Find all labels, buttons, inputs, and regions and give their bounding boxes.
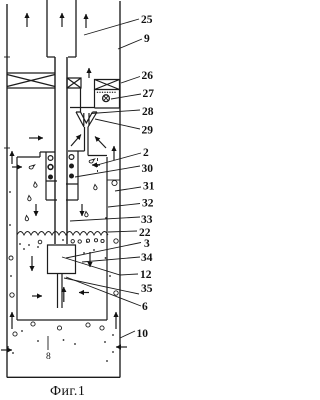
droplet b — [34, 182, 37, 187]
leader 8 — [47, 336, 49, 350]
svg-text:26: 26 — [142, 70, 154, 82]
anchor box right — [66, 184, 78, 200]
inflow arrow upper left — [29, 137, 43, 139]
bubbles under level — [71, 240, 74, 243]
bypass channel wall — [80, 88, 82, 112]
down arrow below level right — [89, 252, 91, 267]
leader 29 — [95, 119, 140, 129]
liquid level wavy line — [17, 232, 108, 236]
flow arrow annulus left bottom — [11, 312, 13, 329]
leader 32 — [108, 204, 140, 208]
flow arrow above right packer — [88, 68, 90, 78]
casing joint tick upper — [4, 56, 10, 58]
dashed stub under plate — [97, 158, 99, 172]
droplet g — [85, 212, 88, 217]
svg-text:29: 29 — [142, 125, 154, 137]
valve housing screen dots — [97, 92, 116, 93]
leader 28 — [91, 110, 140, 114]
leader 27 — [111, 94, 141, 99]
casing bottom — [7, 376, 120, 378]
feed pipe to ejector — [70, 107, 95, 109]
leader 35 — [64, 278, 139, 294]
flow arrow annulus right bottom — [115, 312, 117, 329]
inflow arrow into left chamber — [12, 166, 22, 168]
shell right wall — [106, 157, 108, 320]
up arrow at tail pipe — [63, 287, 65, 302]
flow arrow inside tubing — [61, 13, 63, 27]
flow arrow annulus right mid — [113, 146, 115, 160]
leader 33 — [70, 217, 140, 221]
droplet f — [94, 185, 97, 190]
leader 34 — [82, 257, 140, 262]
pump box — [48, 245, 76, 274]
valve housing — [95, 90, 120, 109]
leader 3 — [66, 243, 141, 259]
svg-text:28: 28 — [142, 106, 154, 118]
tubing step shoulders — [47, 56, 76, 58]
shell bottom — [17, 319, 107, 321]
droplet d — [25, 216, 28, 221]
svg-text:30: 30 — [142, 163, 154, 175]
shell top plate right — [68, 151, 107, 156]
leader 31 — [115, 187, 141, 191]
ejector tail pipe — [85, 127, 89, 156]
svg-text:27: 27 — [143, 88, 155, 100]
arrow to tail pipe left — [32, 295, 42, 297]
casing joint tick lower — [4, 147, 10, 149]
packer right outer box — [95, 80, 120, 90]
svg-text:32: 32 — [142, 198, 154, 210]
arrow into funnel from left — [71, 135, 81, 147]
shell left wall — [16, 157, 18, 320]
svg-text:6: 6 — [142, 301, 148, 313]
leader 12 — [62, 257, 138, 275]
leader 25 — [84, 19, 139, 35]
svg-text:8: 8 — [46, 352, 51, 362]
svg-text:Фиг.1: Фиг.1 — [50, 384, 85, 399]
packer left — [7, 73, 55, 88]
arrow into funnel from right — [95, 137, 106, 149]
perforation holes left column — [48, 156, 53, 161]
inflow arrow bottom left — [1, 349, 12, 351]
valve — [103, 95, 110, 102]
arrow to tail pipe right — [79, 292, 89, 294]
annulus circles right — [112, 180, 117, 185]
down arrow right chamber — [81, 204, 83, 216]
casing right wall — [119, 1, 121, 378]
inner housing right wall — [77, 151, 79, 184]
svg-text:35: 35 — [141, 283, 153, 295]
leader 6 — [66, 277, 141, 306]
bracket to casing — [107, 179, 120, 181]
svg-text:9: 9 — [144, 33, 150, 45]
svg-text:10: 10 — [137, 328, 149, 340]
pump tail pipe — [58, 274, 63, 309]
down arrow below level left — [31, 256, 33, 271]
svg-text:31: 31 — [143, 181, 155, 193]
svg-text:3: 3 — [144, 238, 150, 250]
svg-text:25: 25 — [141, 14, 153, 26]
flow arrow annulus top-right — [85, 14, 87, 28]
central tube — [55, 57, 67, 244]
droplet a — [29, 165, 35, 169]
packer right inner box — [67, 78, 81, 88]
tubing upper section — [47, 0, 76, 57]
leader 10 — [120, 331, 135, 338]
svg-text:12: 12 — [140, 269, 152, 281]
perforation holes right column — [69, 155, 74, 160]
casing left wall — [6, 4, 8, 378]
droplet e — [89, 159, 95, 163]
sump dots — [7, 330, 114, 362]
leader 30 — [75, 166, 140, 177]
inflow arrow bottom right — [116, 346, 127, 348]
sump bubbles — [31, 322, 35, 326]
arrow in right chamber — [92, 164, 100, 166]
flow arrow annulus top-left — [26, 13, 28, 27]
shell top plate left — [17, 152, 55, 157]
droplet c — [28, 196, 31, 201]
svg-text:2: 2 — [143, 147, 149, 159]
annulus dots — [9, 191, 111, 277]
anchor box left — [46, 181, 57, 200]
leader 9 — [118, 39, 142, 49]
svg-text:33: 33 — [141, 214, 153, 226]
down arrow left chamber — [35, 204, 37, 216]
leader 26 — [121, 77, 140, 84]
leader 2 — [97, 153, 141, 165]
ejector funnel — [76, 112, 97, 127]
flow arrow annulus left mid — [11, 151, 13, 164]
leader 22 — [108, 231, 137, 232]
inner housing left wall — [45, 152, 47, 181]
annulus circles left — [9, 256, 13, 260]
svg-text:34: 34 — [141, 252, 153, 264]
